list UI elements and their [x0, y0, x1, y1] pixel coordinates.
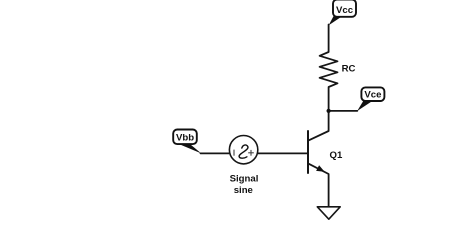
svg-text:sine: sine: [234, 185, 253, 196]
svg-text:Signal: Signal: [230, 173, 259, 184]
svg-text:Vce: Vce: [364, 90, 381, 101]
svg-text:Q1: Q1: [330, 150, 343, 161]
svg-text:Vcc: Vcc: [336, 5, 354, 16]
svg-text:Vbb: Vbb: [176, 133, 194, 144]
svg-text:RC: RC: [342, 63, 356, 74]
